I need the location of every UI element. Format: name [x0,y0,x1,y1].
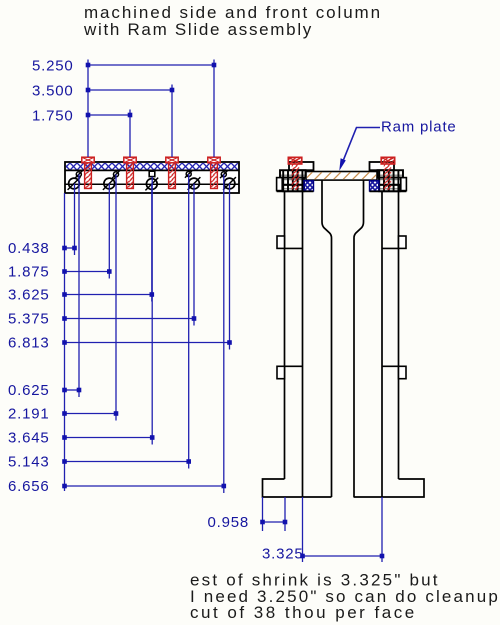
dim line 0.625 [65,389,80,391]
bolt B4 shank [211,163,218,189]
extension line hole G4 [193,184,195,326]
left clamp nut lower (hatched) [282,178,305,185]
extension line hole G3 [151,184,153,302]
bolt B3 head [166,157,178,163]
dim line 3.625 [65,294,152,296]
left bolt head (red) [288,157,302,164]
right clamp bottom block (hatched) [379,185,400,191]
svg-text:5.250: 5.250 [32,57,74,74]
extension line foot left edge [262,497,264,531]
ram slide left edge with taper [322,180,332,497]
mid horizontal line [65,183,239,185]
svg-text:0.958: 0.958 [207,514,249,531]
extension line hole G2 [108,184,110,279]
svg-text:with Ram Slide assembly: with Ram Slide assembly [83,20,313,39]
hole G3 big circle [145,178,159,191]
leader arrowhead [339,158,346,171]
right leg outer edge [398,192,400,480]
arrow squares 3.325 [300,554,384,559]
right leg notch lower [382,366,406,378]
left leg inner edge [302,192,304,498]
hole G1 big circle [67,177,81,190]
bolt B1 shank [85,163,92,189]
hole H1 small circle [75,171,83,179]
extension line hole H1 [78,174,80,397]
svg-text:cut of 38 thou per face: cut of 38 thou per face [190,603,417,622]
svg-text:3.325: 3.325 [262,545,304,562]
left bolt shank (red hatch through nut) [292,164,299,190]
column top plate body (side view) [65,162,239,193]
dim line 2.191 [65,413,117,415]
svg-text:5.375: 5.375 [8,310,50,327]
dim line 5.143 [65,461,189,463]
svg-text:Ram plate: Ram plate [381,119,457,136]
left flange bottom line [277,190,314,192]
left clamp nut upper (hatched) [280,170,306,177]
extension line left leg inner [302,497,304,562]
dim line 0.438 [65,247,75,249]
extension line hole H2 [115,174,117,420]
svg-text:1.875: 1.875 [8,263,50,280]
svg-text:3.645: 3.645 [8,429,50,446]
dim line 3.325 [303,555,383,557]
hole G2 big circle [102,177,116,190]
arrow squares 0.958 [260,520,287,525]
svg-text:3.625: 3.625 [8,286,50,303]
arrow squares left dims [62,246,232,489]
bolt B2 head [124,157,136,163]
extension line hole H5 [223,174,225,493]
right washer plate [401,178,407,191]
extension line key K1 [151,177,153,445]
bolt B2 shank [127,163,134,189]
extension line hole G1 [74,184,76,256]
right clamp nut upper (hatched) [378,170,404,177]
key square K1 [149,171,155,176]
bolt B3 shank [169,163,176,189]
svg-text:6.656: 6.656 [8,478,50,495]
extension line bolt3 [171,85,173,158]
dim line 1.875 [65,271,110,273]
extension line bolt2 [129,110,131,158]
left foot [263,479,332,497]
svg-text:6.813: 6.813 [8,334,50,351]
right gib block (blue hatch) [370,181,380,191]
dim line 6.656 [65,485,224,487]
knurl hatch strip [66,163,238,170]
left clamp bottom block (hatched) [283,185,304,191]
svg-text:3.500: 3.500 [32,82,74,99]
right foot [354,479,425,497]
dim line 1.750 [88,114,130,116]
hole H5 small circle [220,171,228,179]
reference extension line (left edge) [64,193,66,491]
right bolt head (red) [381,157,395,164]
hole G4 big circle [187,177,201,190]
extension line hole G5 [229,184,231,350]
left gib block (blue hatch) [304,181,314,191]
ram plate (hatched) [306,172,377,181]
hole G5 big circle [222,177,236,190]
left washer plate [277,178,283,191]
svg-text:5.143: 5.143 [8,453,50,470]
dim line 5.250 [88,64,214,66]
arrow squares top dims [86,63,217,118]
left leg notch upper [277,236,303,248]
dim line 0.958 [263,521,286,523]
bolt B1 head [82,157,94,163]
right clamp nut lower (hatched) [379,178,402,185]
right bolt shank (red hatch through nut) [384,164,391,190]
ram slide right edge with taper [354,180,364,497]
extension line hole H4 [188,174,190,469]
right leg inner edge [381,192,383,498]
dim line 5.375 [65,318,195,320]
left flange step block [289,162,314,170]
right flange bottom line [370,190,407,192]
extension line bolt4 [213,60,215,158]
svg-text:1.750: 1.750 [32,107,74,124]
hatch strip bottom line [65,169,239,171]
right leg notch upper [382,236,406,248]
bottom note text [190,571,500,623]
svg-text:2.191: 2.191 [8,405,50,422]
extension line left leg outer [284,497,286,531]
extension line bolt1 [87,60,89,158]
right flange step block [370,162,395,170]
left leg notch lower [277,366,303,378]
svg-text:0.625: 0.625 [8,382,50,399]
dim line 6.813 [65,342,230,344]
dim line 3.500 [88,89,172,91]
left leg outer edge [284,192,286,480]
hole H2 small circle [112,171,120,179]
extension line right leg inner [381,497,383,562]
hole H4 small circle [185,170,193,178]
leader line [344,128,380,160]
bolt B4 head [208,157,220,163]
svg-text:0.438: 0.438 [8,240,50,257]
dim line 3.645 [65,437,153,439]
